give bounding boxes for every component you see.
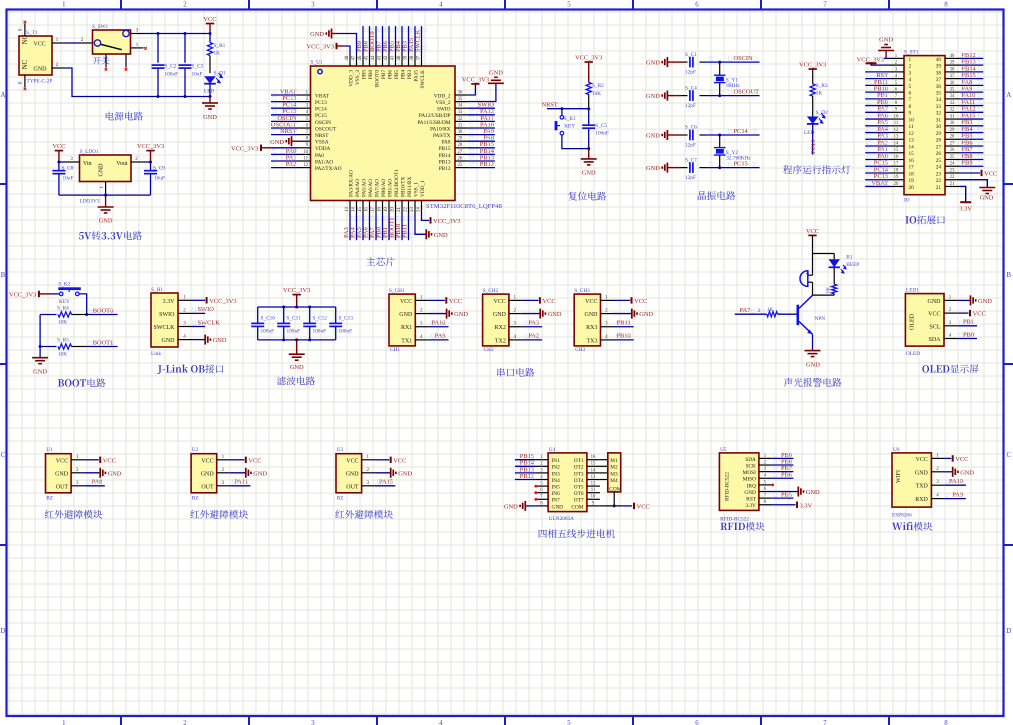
wire net PC14 [271,107,298,109]
svg-text:11: 11 [894,121,899,126]
svg-text:15: 15 [591,462,596,467]
pin 2 GND of S_T1 [52,67,65,69]
svg-text:SWIO: SWIO [437,107,451,113]
svg-text:U3: U3 [337,447,344,453]
svg-text:21: 21 [397,207,402,212]
svg-text:SWCLK: SWCLK [198,319,221,326]
pin 9 (COM) of U4 [587,505,600,507]
svg-text:IRQ: IRQ [747,483,756,489]
svg-text:28: 28 [458,143,463,148]
led in alarm [833,254,835,260]
svg-text:10K: 10K [58,320,67,326]
svg-text:COM: COM [571,504,583,510]
pin 44 (BOOT0) of S_U1 [375,53,377,66]
wire net BOOT1 [395,214,397,241]
ground GND power [209,97,211,104]
svg-text:31: 31 [936,117,942,123]
svg-text:S_U1: S_U1 [311,60,323,66]
svg-text:30: 30 [950,121,955,126]
wire net PB8 [369,26,371,53]
svg-text:B: B [1007,272,1012,279]
svg-text:PA7: PA7 [740,307,752,314]
pin 4 (IN4) of U4 [535,479,548,481]
pin 11 (PA1/AO) of S_U1 [298,160,311,162]
pin 16 of S_ST1 [890,159,905,161]
pin 14 of S_ST1 [890,145,905,147]
svg-text:VCC_3V3: VCC_3V3 [799,62,826,69]
svg-text:IN6: IN6 [552,491,561,497]
ground GND U2 [230,472,246,474]
wire net PA8 [960,84,984,86]
pin 45 (PB8) of S_U1 [369,53,371,66]
wire net SWIO [468,107,495,109]
svg-text:15: 15 [894,148,899,153]
wire net PA2 [522,339,542,341]
svg-text:S_C13: S_C13 [339,316,354,322]
no-connect dot [534,485,537,488]
svg-text:PA8: PA8 [92,479,103,486]
pin 13 (PA3/RX/AO) of S_U1 [349,201,351,214]
svg-text:PB5: PB5 [394,70,400,79]
svg-text:Vout: Vout [116,161,128,167]
buzzer B1 BEEP [812,254,814,276]
wire net PB10 [865,91,889,93]
svg-text:29: 29 [950,128,955,133]
svg-text:12pF: 12pF [685,103,696,109]
svg-text:CH2: CH2 [484,347,494,353]
pin 15 (PA5/AO) of S_U1 [362,201,364,214]
wire net PB5 [772,497,794,499]
svg-text:12pF: 12pF [685,143,696,149]
header S_ST1 IO [904,56,945,195]
svg-text:PB12: PB12 [520,473,534,480]
svg-text:BZ: BZ [192,495,199,501]
svg-text:VCC: VCC [543,298,556,305]
svg-text:A: A [1006,92,1011,99]
svg-text:GND: GND [915,470,929,476]
svg-text:3.3V: 3.3V [800,502,813,509]
svg-text:12: 12 [591,482,596,487]
svg-text:U2: U2 [192,447,199,453]
svg-text:VCC: VCC [585,299,597,305]
svg-text:10: 10 [591,495,596,500]
svg-text:39: 39 [404,55,409,60]
svg-text:SWIO: SWIO [198,306,215,313]
pin 29 (PA8) of S_U1 [455,140,468,142]
svg-text:PB13: PB13 [439,159,451,165]
capacitor C6 [681,134,688,136]
svg-text:TYPE-C-2P: TYPE-C-2P [27,79,53,85]
key S_K2 [59,292,63,296]
pin 31 of S_ST1 [945,118,960,120]
wire net BOOT0 [87,314,118,316]
svg-text:10uF: 10uF [154,175,165,181]
pin 10 of S_ST1 [890,118,905,120]
svg-text:VSSA: VSSA [315,140,329,146]
wire net PB12 [468,167,495,169]
pin 17 of S_ST1 [890,165,905,167]
pin 18 (PB0/AO) of S_U1 [382,201,384,214]
svg-text:GND: GND [552,504,564,510]
svg-text:VCC: VCC [393,457,406,464]
svg-text:PB0/AO: PB0/AO [381,179,387,197]
svg-text:42: 42 [384,55,389,60]
svg-text:VCC_3V3: VCC_3V3 [462,77,489,84]
resistor S_R2 [586,82,591,94]
wire net PB6 [960,145,984,147]
pin 36 of S_ST1 [945,84,960,86]
svg-text:3.3V: 3.3V [163,299,176,305]
pin 23 (VSS_1) of S_U1 [414,201,416,214]
wire net PA9 [428,339,448,341]
driver U4 ULN2003A [548,453,587,512]
ground GND filter [296,340,298,354]
no-connect dot [534,491,537,494]
svg-text:25: 25 [936,158,942,164]
pin 30 of S_ST1 [945,125,960,127]
svg-text:5: 5 [909,84,912,90]
svg-text:OUT: OUT [56,484,69,490]
svg-text:40: 40 [950,54,955,59]
wire net PA12 [468,114,495,116]
wire COM down [613,492,615,506]
svg-text:S_C8: S_C8 [62,165,74,171]
ground GND for C6 [666,130,668,140]
top rail wire [258,306,336,308]
pin 37 (SWCLK) of S_U1 [421,53,423,66]
wire net PB3 [960,125,984,127]
svg-text:OT5: OT5 [574,485,584,491]
wire to motor header [600,472,608,474]
svg-text:RX2: RX2 [495,325,506,331]
svg-text:VCC_3V3: VCC_3V3 [231,145,258,152]
ground GND ch1 [428,313,446,315]
power VCC_3V3 at pin 24 VDD_1 [422,214,430,221]
svg-text:BOOT1: BOOT1 [93,339,114,346]
svg-text:15: 15 [358,207,363,212]
power flag VCC [206,23,214,25]
regulator S_LDO1 [80,155,132,182]
wire [59,161,67,163]
svg-text:8: 8 [944,1,948,8]
wire net PB13 [515,472,535,474]
svg-text:OT1: OT1 [574,458,584,464]
ground GND jlink [192,339,206,341]
svg-text:34: 34 [936,97,942,103]
svg-text:9: 9 [909,111,912,117]
svg-text:PC13: PC13 [810,140,817,154]
svg-text:2: 2 [909,64,912,70]
capacitor S_C2 [157,34,159,63]
svg-text:STM32F103C8T6_LQFP48: STM32F103C8T6_LQFP48 [426,203,502,210]
wire net PB15 [468,147,495,149]
transistor NPN [796,305,799,326]
bottom rail wire [258,339,336,341]
wire net PA1 [865,152,889,154]
pin 13 (OT4) of U4 [587,479,600,481]
junction dots filter [282,306,285,309]
switch S_SW1 [93,30,131,54]
svg-text:8MHz: 8MHz [726,83,740,89]
pin 38 of S_ST1 [945,71,960,73]
ground GND at pin 22 [960,180,988,187]
pin 21 (PB10/TX) of S_U1 [401,201,403,214]
svg-text:45: 45 [365,55,370,60]
wire base [778,313,798,315]
junction [209,32,212,35]
svg-text:VCC_3V3: VCC_3V3 [209,298,236,305]
pin 3 of S_LDO1 [67,161,80,163]
svg-text:S_R3: S_R3 [816,83,828,89]
svg-text:33: 33 [950,101,955,106]
pin 26 (PB13) of S_U1 [455,160,468,162]
svg-text:GND: GND [646,133,660,140]
svg-text:GND: GND [582,170,596,177]
title 5V转3.3V电路 [79,232,91,239]
svg-text:VDD_3: VDD_3 [348,70,354,87]
pin 35 of S_ST1 [945,91,960,93]
svg-text:13: 13 [909,138,915,144]
title RFID模块 [721,523,745,530]
svg-text:37: 37 [950,74,955,79]
svg-text:PA2/TX/AO: PA2/TX/AO [315,166,342,172]
wire net PB9 [960,165,984,167]
pin 41 (PB5) of S_U1 [395,53,397,66]
pin 1 (VBAT) of S_U1 [298,94,311,96]
svg-text:PB3: PB3 [407,70,413,79]
pin 48 (VDD_3) of S_U1 [349,53,351,66]
wire net VBAT [865,185,889,187]
svg-text:17: 17 [894,162,899,167]
title 主芯片 [366,257,394,266]
wire net PB6 [772,477,794,479]
pin 47 (VSS_3) of S_U1 [356,53,358,66]
wire net PB7 [960,152,984,154]
svg-text:COM: COM [609,487,621,493]
resistor S_R5 [40,346,56,348]
ground GND boot [32,357,48,359]
wire net PA8 [468,140,495,142]
pin 12 (OT5) of U4 [587,485,600,487]
svg-text:5: 5 [567,1,571,8]
pin 16 (PA6/AO) of S_U1 [369,201,371,214]
ground GND oled [957,299,970,301]
wire net PA10 wifi [944,484,966,486]
ground GND wifi [944,471,952,473]
svg-text:PA11/USB/DM: PA11/USB/DM [417,120,450,126]
svg-text:M3: M3 [610,471,618,477]
svg-text:1K: 1K [816,91,823,97]
wire net PB6 [388,26,390,53]
wire net PB4 [960,132,984,134]
wire net PA7 [865,111,889,113]
svg-text:4: 4 [439,720,443,725]
svg-text:33: 33 [936,104,942,110]
power 3.3V at pin 21 [960,186,966,202]
svg-text:LED1: LED1 [906,288,919,294]
svg-text:S_D2: S_D2 [816,110,828,116]
pin 37 of S_ST1 [945,78,960,80]
svg-text:VCC: VCC [103,457,116,464]
svg-text:17: 17 [371,207,376,212]
svg-text:ESP8266: ESP8266 [892,512,912,518]
svg-text:RX3: RX3 [586,325,597,331]
ground GND for C1 [666,57,668,67]
wire net PA3 [865,138,889,140]
svg-text:S_CH1: S_CH1 [389,288,405,294]
svg-text:S_R2: S_R2 [592,83,604,89]
svg-text:22: 22 [404,207,409,212]
svg-text:GND: GND [253,470,267,477]
svg-text:VCC: VCC [34,42,46,48]
svg-text:18: 18 [909,171,915,177]
svg-text:S_C12: S_C12 [313,316,328,322]
svg-text:S_CH3: S_CH3 [574,288,590,294]
svg-text:GND: GND [980,195,994,202]
svg-text:6: 6 [909,91,912,97]
wire net PA3 [349,214,351,241]
connector S_T1 (TYPE-C-2P) [19,36,52,75]
svg-text:KEY: KEY [59,299,70,305]
svg-text:GND: GND [108,470,122,477]
power VCC ch2 [522,299,539,301]
wire net PA8 [84,485,105,487]
ground at pin 47 VSS_3 [337,34,357,54]
title IO拓展口 [905,216,916,224]
wire net PA1 [271,160,298,162]
wire net PB1 [957,325,977,327]
wire net PA5 [865,125,889,127]
pin 3 of S_ST1 [890,71,905,73]
module S_CH2 [483,294,509,346]
svg-text:VDDA: VDDA [315,146,330,152]
no-connect dot [534,498,537,501]
pin 39 (PB3) of S_U1 [408,53,410,66]
pin 34 of S_ST1 [945,98,960,100]
svg-text:16: 16 [591,455,596,460]
svg-text:PB7: PB7 [381,70,387,79]
svg-text:PA15: PA15 [413,70,419,82]
svg-text:SDA: SDA [928,337,941,343]
svg-text:27: 27 [950,141,955,146]
wire to motor header [600,459,608,461]
capacitor C7 [681,167,688,169]
svg-text:PA10/RX: PA10/RX [430,126,451,132]
svg-text:6: 6 [695,1,699,8]
svg-text:PB8: PB8 [368,70,374,79]
svg-text:S_LDO1: S_LDO1 [80,149,99,155]
svg-text:100nF: 100nF [261,328,275,334]
wire net PC14 [706,134,760,136]
svg-text:OSCIN: OSCIN [315,120,331,126]
svg-text:VCC: VCC [637,504,650,511]
resistor 1K base [767,312,778,317]
svg-text:B: B [1,272,6,279]
svg-text:VCC_3V3: VCC_3V3 [307,44,334,51]
svg-text:PA10: PA10 [949,478,963,485]
svg-text:16: 16 [365,207,370,212]
svg-text:VBAT: VBAT [871,180,888,187]
pin 3 of S_SW1 [131,33,144,35]
ground GND ch2 [522,313,540,315]
svg-text:NRST: NRST [315,133,329,139]
ground GND alarm [805,350,821,352]
pin 20 of S_ST1 [890,185,905,187]
svg-text:33: 33 [458,110,463,115]
svg-text:23: 23 [950,168,955,173]
wire net PB7 [382,26,384,53]
module S_CH1 [389,294,415,346]
svg-text:27: 27 [936,144,942,150]
title 四相五线步进电机 [539,529,615,538]
wire [144,161,151,163]
svg-text:31: 31 [458,123,463,128]
header S_H1 Link [151,293,178,347]
wire net SWIO [192,312,206,314]
svg-text:100nF: 100nF [595,130,609,136]
svg-text:13: 13 [345,207,350,212]
svg-text:VSS_1: VSS_1 [413,182,419,197]
svg-text:35: 35 [950,88,955,93]
svg-text:S_C6: S_C6 [685,125,697,131]
svg-text:GND: GND [646,165,660,172]
wire net PC15 [271,114,298,116]
svg-text:GND: GND [960,469,974,476]
ground GND stepper [525,505,535,507]
ground GND U1 [84,472,100,474]
svg-text:19: 19 [894,175,899,180]
svg-text:18: 18 [378,207,383,212]
wire net PA2 [271,167,298,169]
wire net PB0 [957,338,977,340]
svg-text:19: 19 [909,178,915,184]
svg-text:PA12/USB/DP: PA12/USB/DP [419,113,451,119]
pin 33 of S_ST1 [945,105,960,107]
pin 12 (PA2/TX/AO) of S_U1 [298,167,311,169]
wire net PA9 [468,134,495,136]
capacitor S_C12 [309,307,311,323]
svg-text:GND: GND [454,311,468,318]
svg-text:OSCOUT: OSCOUT [734,88,760,95]
wire net PB11 [408,214,410,241]
pin 2 of S_LDO1 [131,161,144,163]
pin 17 (PA7/AO) of S_U1 [375,201,377,214]
wire net PA6 [369,214,371,241]
svg-text:13: 13 [591,475,596,480]
svg-text:GND: GND [978,298,992,305]
wire net PB9 [772,457,794,459]
capacitor C1 [681,61,688,63]
title 串口电路 [497,368,534,377]
svg-text:OT6: OT6 [574,491,584,497]
svg-text:31: 31 [950,114,955,119]
svg-text:7: 7 [823,720,827,725]
pin 40 of S_ST1 [945,57,960,59]
wire net BOOT1 [87,346,118,348]
resistor S_R1 [209,34,211,43]
pin 25 of S_ST1 [945,159,960,161]
wire to motor header [600,479,608,481]
wire net PA9 [960,91,984,93]
pin 6 of S_ST1 [890,91,905,93]
wire net PA11 [960,105,984,107]
svg-text:3: 3 [311,1,315,8]
wire net PB13 [468,160,495,162]
svg-text:U4: U4 [549,447,556,453]
resistor 1K alarm [833,267,835,284]
power VCC ch3 [614,299,631,301]
no-connect IRQ [771,483,774,486]
